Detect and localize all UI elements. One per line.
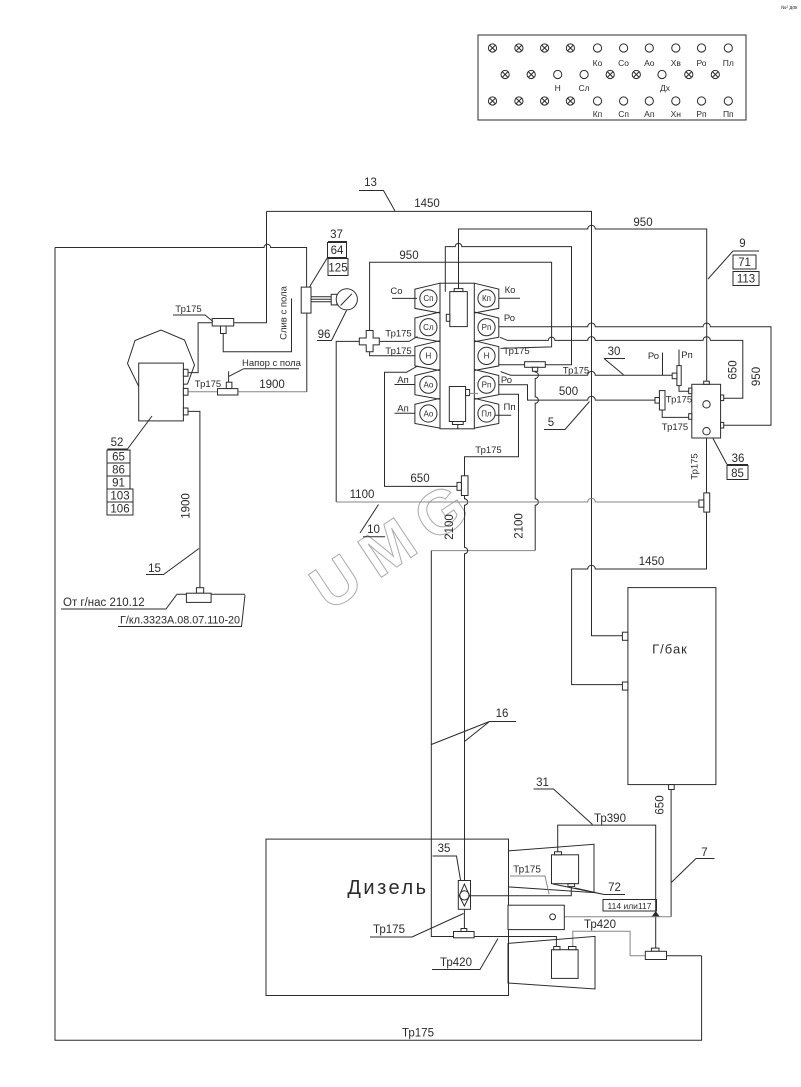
tee Tp175 on 500 line (vertical) [655, 391, 665, 410]
wire 650 right riser (H wing top corner to block 36 upper-right port) [500, 337, 743, 399]
callout 16 [431, 708, 516, 745]
wire element 35 bottom to tee4 [463, 909, 465, 928]
wire 1100 horizontal (grey, hop at x=591.5) [336, 498, 699, 502]
wire block top to tee right of H port, hop at x=458.5 [445, 243, 571, 364]
tee Pn (vertical) [672, 366, 681, 386]
svg-text:Г/бак: Г/бак [652, 642, 688, 657]
port wing left Сп [415, 283, 440, 313]
wire H wing to tee Tp175 right [499, 364, 525, 366]
svg-text:Ап: Ап [397, 375, 408, 386]
svg-text:Тр420: Тр420 [584, 919, 616, 931]
svg-text:Тр175: Тр175 [503, 346, 529, 357]
port wing left Сл [415, 312, 440, 342]
callout 9 with 71 113 [708, 238, 759, 286]
svg-text:Слив с пола: Слив с пола [279, 285, 290, 340]
svg-text:52: 52 [111, 437, 124, 449]
svg-text:Ро: Ро [501, 375, 512, 386]
svg-text:Н: Н [484, 352, 490, 361]
svg-text:85: 85 [731, 468, 744, 480]
svg-text:От г/нас 210.12: От г/нас 210.12 [63, 597, 145, 609]
pressure gauge 96 [336, 289, 357, 310]
wire So stub [392, 297, 417, 299]
svg-text:Тр420: Тр420 [440, 957, 472, 969]
lower small reservoir [552, 950, 579, 979]
svg-text:Тр175: Тр175 [475, 445, 501, 456]
svg-text:Тр390: Тр390 [594, 813, 626, 825]
svg-text:9: 9 [739, 238, 745, 250]
svg-text:113: 113 [737, 274, 755, 286]
svg-text:37: 37 [330, 229, 343, 241]
connector row1 labels [555, 58, 734, 119]
svg-text:36: 36 [732, 453, 745, 465]
tee Tp175 napor s pola [218, 382, 238, 395]
wire 1900 lower (grey) with black riser to damper [188, 391, 307, 393]
wire Pn open stub [678, 350, 680, 366]
wire top-left to damper 64 (hop over x=267) [55, 244, 307, 287]
svg-text:Тр175: Тр175 [662, 422, 688, 433]
svg-text:91: 91 [112, 478, 125, 490]
wire 650 from tank bottom to pump line [670, 790, 672, 917]
svg-text:114 или117: 114 или117 [608, 901, 652, 911]
cloud outline around unit 52 [128, 330, 195, 387]
wire 650 left (H wing to drop tee) [385, 366, 458, 486]
svg-text:Ко: Ко [593, 58, 603, 68]
callout 96 [317, 311, 347, 342]
svg-text:Хн: Хн [671, 109, 682, 119]
svg-text:106: 106 [110, 504, 129, 516]
port wing left Ао [415, 370, 440, 400]
cartridge top in block 10 [454, 289, 463, 292]
svg-text:2100: 2100 [514, 513, 526, 539]
callout 13 [359, 177, 395, 211]
svg-text:7: 7 [701, 847, 707, 859]
wire Po steering run y=375 (hop at x=591.5) [501, 371, 673, 375]
wire from g/nas 210.12 [176, 593, 245, 595]
svg-text:Рп: Рп [482, 323, 492, 332]
svg-text:950: 950 [633, 217, 652, 229]
hydraulic tank G/bak [628, 588, 716, 785]
wire 950 upper (to block 36 top port), hop at x=591.5 [459, 225, 707, 381]
svg-text:Ро: Ро [696, 58, 706, 68]
label Tp175 grey near reservoir 72 [510, 865, 549, 895]
wire Tp390 leg below arrow to tee [655, 917, 657, 948]
svg-text:Тр175: Тр175 [385, 329, 411, 340]
svg-text:Тр175: Тр175 [402, 1028, 434, 1040]
wire Ap stub upper [395, 384, 415, 386]
wire Ap stub lower [395, 412, 415, 414]
damper block 64/125 [301, 287, 311, 313]
generator upper trapezoid [509, 844, 595, 892]
cartridge bottom in block 10 [449, 387, 465, 422]
wire filter leg x=464.5 down to element 35 (hops y=502,y=550) [465, 496, 468, 881]
callout 37 64 125 [310, 229, 349, 287]
leader Tp175 upper-left tee [173, 315, 213, 322]
diesel engine box [266, 839, 509, 995]
svg-text:Кп: Кп [482, 294, 491, 303]
svg-text:Хв: Хв [671, 58, 682, 68]
svg-text:31: 31 [536, 777, 549, 789]
svg-text:Рп: Рп [482, 381, 492, 390]
port wing right Н [474, 341, 499, 371]
callout 36 85 [713, 439, 748, 480]
wire main return loop Tp175 (left/bottom frame) [55, 248, 702, 1041]
wire tee5 to bottom frame corner [667, 955, 702, 957]
wire 2100 left leg horizontal (grey) [431, 550, 535, 552]
svg-text:Ап: Ап [644, 109, 655, 119]
svg-text:Пп: Пп [504, 402, 516, 413]
cartridge tab pilot line [470, 392, 478, 394]
svg-text:Пп: Пп [723, 109, 734, 119]
wire cross fitting bottom arm to N wing [370, 352, 416, 356]
svg-text:Сл: Сл [579, 83, 590, 93]
svg-text:950: 950 [751, 367, 763, 386]
svg-text:1450: 1450 [639, 556, 665, 568]
wire stubs entering block 10 top [445, 283, 458, 292]
svg-text:Сп: Сп [618, 109, 629, 119]
svg-text:Со: Со [618, 58, 629, 68]
wire element 35 outlet to upper pump bottom port [471, 887, 572, 896]
wire 13/1450 from node A down to tank upper port [267, 211, 623, 635]
svg-text:650: 650 [728, 360, 740, 379]
svg-text:96: 96 [318, 329, 331, 341]
svg-text:Пл: Пл [723, 58, 734, 68]
wire tee 500 to block 36 lower-left port [662, 410, 689, 417]
gauge shaft [311, 297, 331, 302]
wire Po open stub [662, 353, 664, 376]
svg-text:Тр175: Тр175 [175, 304, 201, 315]
svg-text:650: 650 [655, 795, 667, 814]
valve block 10 body [440, 283, 474, 429]
svg-text:1900: 1900 [181, 493, 193, 519]
port wing left Н [415, 341, 440, 371]
label Tp420 lower-left [432, 939, 498, 970]
wire pump outlet (grey) [555, 916, 671, 918]
callout 5 [544, 402, 590, 430]
label Tp175 near tee4 [370, 914, 464, 938]
svg-text:Г/кл.3323А.08.07.110-20: Г/кл.3323А.08.07.110-20 [120, 615, 240, 627]
tee ot g/nas [186, 588, 211, 603]
svg-text:5: 5 [548, 417, 554, 429]
generator lower trapezoid [508, 936, 595, 989]
tee Tp175 drop (vertical, above 2100) [457, 476, 468, 496]
label ot g/nas 210.12 [61, 595, 177, 609]
unit 52 ports [183, 369, 188, 376]
watermark UMG logo [298, 463, 492, 624]
port wing right Рп [474, 312, 499, 342]
label G/kl.3323A [118, 595, 245, 627]
svg-text:Дх: Дх [660, 83, 671, 93]
svg-text:Рп: Рп [696, 109, 707, 119]
tee Tp175 upper-left [212, 319, 234, 334]
svg-text:1100: 1100 [350, 489, 375, 501]
tee Tp175 right of H wing [525, 362, 546, 372]
svg-text:500: 500 [559, 386, 578, 398]
svg-text:64: 64 [331, 245, 344, 257]
callout 31 [534, 777, 593, 825]
svg-text:Н: Н [555, 83, 561, 93]
svg-text:125: 125 [328, 263, 347, 275]
svg-text:35: 35 [438, 843, 451, 855]
wire napor s pola tick [228, 371, 230, 382]
svg-text:Н: Н [426, 352, 432, 361]
block 36/85 body [692, 384, 721, 438]
wire Tp390 riser with arrow to pump line [558, 825, 656, 911]
wire Tp420 run (grey) [573, 931, 646, 955]
svg-text:Дизель: Дизель [347, 877, 428, 899]
svg-text:Тр175: Тр175 [385, 346, 411, 357]
wire 1450 lower (block 36 bottom to tank lower port, hop at x=591.5) [572, 512, 707, 685]
callout 10 [360, 505, 385, 537]
svg-text:Сл: Сл [423, 323, 434, 332]
wire pump port 1 to tee Tp175 [188, 323, 212, 373]
svg-text:Ро: Ро [648, 351, 659, 362]
svg-text:650: 650 [410, 473, 429, 485]
svg-text:950: 950 [399, 250, 418, 262]
starter box with port circle [508, 905, 564, 929]
svg-text:Рп: Рп [681, 350, 692, 361]
port wing right Пл [474, 398, 499, 428]
svg-text:Тр175: Тр175 [513, 865, 541, 876]
svg-text:Ао: Ао [424, 381, 434, 390]
svg-text:103: 103 [110, 491, 129, 503]
svg-text:Ко: Ко [505, 285, 516, 296]
svg-text:16: 16 [496, 708, 509, 720]
filter element 35 [458, 881, 470, 910]
callout 7 [671, 847, 714, 883]
svg-text:Тр175: Тр175 [195, 379, 221, 390]
svg-text:Ап: Ап [397, 404, 408, 415]
svg-text:Кп: Кп [593, 109, 603, 119]
callout 35 [433, 843, 461, 880]
svg-text:Тр175: Тр175 [563, 366, 589, 377]
callout 15 [146, 549, 199, 576]
svg-text:Сп: Сп [423, 294, 433, 303]
port wing right Кп [474, 283, 499, 313]
cross fitting Tp175 x4 [359, 331, 379, 352]
svg-text:1900: 1900 [259, 379, 285, 391]
svg-text:Ао: Ао [644, 58, 655, 68]
callout 30 [604, 346, 625, 375]
svg-text:13: 13 [364, 177, 377, 189]
tee Tp175 under block 36 (vertical) [699, 493, 710, 512]
svg-text:2100: 2100 [444, 514, 456, 540]
wire 1100 left leg from cross fitting [336, 341, 359, 502]
wire 1900 vertical from port 3 [188, 411, 200, 587]
tee bottom right Tp420/Tp175 [645, 948, 666, 959]
wire Pn tee to block 36 upper-left port [679, 386, 689, 392]
wire tee stem riser x=535.5 down to diesel (hops y=375,y=400,y=502) [535, 371, 538, 550]
wire Pp open stub [494, 414, 512, 416]
upper small reservoir 72 [552, 855, 579, 884]
svg-text:1450: 1450 [414, 198, 440, 210]
svg-text:Тр175: Тр175 [373, 924, 405, 936]
wire cross fitting right arm to Sl wing [380, 337, 418, 342]
wire Po from Pn wing to 950 riser and block 36 lower-right port [499, 323, 771, 425]
wire branch to tee Tp175 upper-left [234, 211, 267, 322]
svg-text:Ро: Ро [504, 313, 515, 324]
wire block 36 bottom to tee [706, 438, 708, 493]
tee under filter 35 [454, 929, 475, 938]
callout 52 stack [107, 416, 152, 516]
svg-text:Со: Со [390, 286, 402, 297]
callout 72 and 114 [553, 882, 657, 911]
connector block X1 (port legend panel) [478, 35, 746, 120]
svg-text:Пл: Пл [481, 409, 492, 418]
leader underline napor s pola [229, 369, 299, 377]
svg-text:71: 71 [738, 257, 751, 269]
wire Pn wing bottom corner to drop tee (Tp175) [465, 394, 519, 476]
svg-text:10: 10 [367, 524, 380, 536]
wire 2100 left leg down to tee under filter 35 [431, 551, 453, 937]
svg-text:Тр175: Тр175 [666, 395, 692, 406]
svg-text:Ао: Ао [424, 409, 434, 418]
wire drain from floor (sliv s pola) [223, 298, 291, 351]
wire Po lower 500 run (hop at x=591.5) [499, 385, 655, 400]
svg-text:Напор с пола: Напор с пола [242, 358, 302, 369]
unit 52 body [139, 363, 184, 421]
svg-text:65: 65 [112, 452, 125, 464]
svg-text:86: 86 [112, 465, 125, 477]
arrow junction on pump line [652, 911, 660, 917]
svg-text:72: 72 [608, 882, 621, 894]
svg-text:30: 30 [608, 346, 621, 358]
svg-text:15: 15 [148, 563, 161, 575]
wire Ko stub [499, 297, 520, 299]
svg-text:Тр175: Тр175 [690, 453, 701, 479]
port wing right Рп [474, 370, 499, 400]
wire tee4 to lower pump port [474, 937, 556, 947]
port wing left Ао [415, 398, 440, 428]
wire 950 left loop (cross fitting to H wing) [370, 262, 552, 348]
svg-text:№² док: №² док [781, 5, 798, 11]
